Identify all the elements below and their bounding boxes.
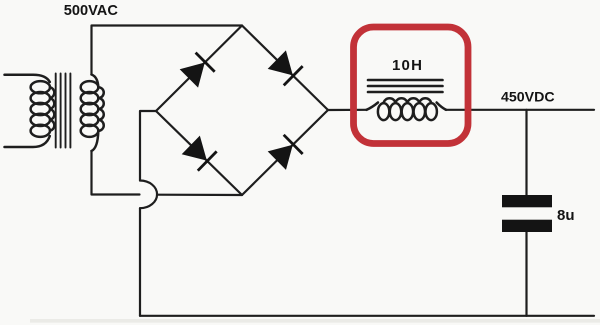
wire: bridge diamond outline	[156, 26, 328, 196]
wire: capacitor top lead	[525, 110, 527, 195]
transformer core	[56, 74, 71, 148]
wire: below hop down to bottom rail	[139, 208, 141, 316]
red highlight box around inductor	[354, 27, 469, 144]
wire: bridge right vertex to inductor	[328, 109, 367, 111]
capacitor C1 (8u)	[502, 195, 552, 232]
svg-text:450VDC: 450VDC	[501, 89, 555, 105]
transformer primary winding	[5, 75, 55, 147]
diode D2 (top-right edge, conducts toward right vertex)	[267, 50, 302, 85]
inductor core bars	[368, 80, 443, 92]
svg-text:500VAC: 500VAC	[64, 3, 119, 19]
wire: inductor to right edge	[446, 109, 595, 111]
diode D4 (bottom-right edge, conducts toward right vertex)	[267, 135, 302, 170]
svg-text:8u: 8u	[557, 207, 575, 224]
wire: left vertex stub and down wire to hop	[140, 111, 156, 181]
transformer T1	[5, 74, 104, 152]
diode D1 (top-left edge, conducts toward top vertex)	[179, 53, 214, 88]
ghost band under bottom rail (scan artifact)	[30, 319, 600, 323]
inductor L1 (10H choke)	[367, 80, 447, 120]
wire top: transformer secondary top to bridge top vertex	[92, 26, 243, 75]
wire: transformer secondary bottom to hop	[92, 151, 140, 195]
diode D3 (bottom-left edge, conducts toward bottom vertex)	[181, 135, 216, 170]
svg-text:10H: 10H	[392, 57, 423, 74]
transformer secondary winding	[81, 75, 104, 152]
wire: capacitor bottom lead	[525, 232, 527, 316]
wire bottom rail	[140, 315, 594, 317]
wire: hop to bridge bottom vertex	[157, 194, 242, 197]
inductor winding	[367, 98, 447, 120]
wire hop (vertical wire jumps over horizontal wire)	[140, 181, 157, 209]
